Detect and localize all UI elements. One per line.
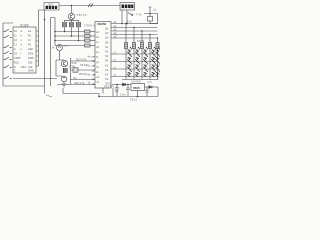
svg-text:c: c xyxy=(21,39,23,42)
transistor T1 top circle xyxy=(68,13,87,20)
top bus to crystal xyxy=(150,23,158,25)
bottom mid text rows xyxy=(69,61,115,89)
wire corner to feed line xyxy=(51,18,56,87)
mid bottom wire 1 xyxy=(70,79,95,81)
svg-text:a1: a1 xyxy=(114,20,117,24)
bottom left rail wire xyxy=(3,85,44,87)
arrow mark xyxy=(128,13,133,16)
bottom bus xyxy=(63,88,99,97)
svg-text:Q2: Q2 xyxy=(105,31,109,35)
wire to IC2 row b xyxy=(71,69,96,71)
switch S5 xyxy=(3,57,12,59)
svg-text:5c: 5c xyxy=(88,65,91,68)
svg-text:11: 11 xyxy=(14,33,17,37)
wire to IC2 row a xyxy=(71,60,96,62)
svg-text:c1: c1 xyxy=(96,40,99,44)
svg-text:f: f xyxy=(21,51,22,55)
ground G1 xyxy=(62,82,67,87)
loop rectangle wires xyxy=(56,60,64,76)
svg-text:Q3: Q3 xyxy=(105,36,109,40)
svg-text:552: 552 xyxy=(28,60,33,64)
svg-text:DM8: DM8 xyxy=(28,56,34,60)
svg-text:+5V: +5V xyxy=(147,80,152,84)
svg-text:e1: e1 xyxy=(96,50,99,54)
wire from display box down xyxy=(122,10,127,24)
svg-text:7805: 7805 xyxy=(133,86,140,90)
capacitor C3 xyxy=(115,85,119,97)
svg-text:Fc: Fc xyxy=(28,38,32,42)
squiggle label xyxy=(46,95,52,97)
switch S3 xyxy=(3,45,12,47)
T1 legs to resistors xyxy=(65,20,79,22)
svg-text:IC280: IC280 xyxy=(20,24,29,28)
svg-text:100u: 100u xyxy=(120,93,126,97)
svg-text:Fb: Fb xyxy=(28,33,32,37)
matrix bottom bus xyxy=(122,79,159,81)
svg-text:XT: XT xyxy=(153,8,157,12)
svg-text:K4: K4 xyxy=(105,77,109,81)
svg-text:Q1: Q1 xyxy=(105,27,109,31)
IC2 box xyxy=(95,22,111,89)
resistor R1 vertical hatched xyxy=(62,22,66,27)
IC2 right pins to matrix feed wires xyxy=(111,24,158,39)
svg-text:10: 10 xyxy=(92,60,95,63)
row wire 1 with resistor R4 xyxy=(55,30,95,33)
svg-text:Fd: Fd xyxy=(28,42,32,46)
svg-text:k1: k1 xyxy=(96,70,99,74)
svg-text:13: 13 xyxy=(14,42,17,46)
row wire 2 with resistor R5 xyxy=(55,35,95,38)
svg-text:9: 9 xyxy=(14,47,16,51)
switch S1 xyxy=(3,29,12,31)
svg-text:14a: 14a xyxy=(28,65,33,69)
column wires xyxy=(126,49,158,80)
svg-text:12: 12 xyxy=(14,38,17,42)
svg-text:R19 1k: R19 1k xyxy=(79,73,88,76)
IC2 left lower pin stubs xyxy=(93,57,95,85)
svg-text:S3: S3 xyxy=(105,54,109,58)
svg-text:15: 15 xyxy=(14,51,17,55)
svg-text:5.8V 0.5: 5.8V 0.5 xyxy=(77,13,88,17)
IC1 right pins stubs xyxy=(36,31,39,66)
svg-text:h1: h1 xyxy=(96,65,99,69)
svg-text:a1: a1 xyxy=(96,30,99,34)
bottom right bus xyxy=(99,87,158,97)
svg-text:VD05: VD05 xyxy=(14,56,21,60)
svg-text:6e: 6e xyxy=(88,74,91,77)
wire top bus from power box to display box xyxy=(59,5,120,7)
svg-text:8: 8 xyxy=(14,65,16,69)
matrix row wires xyxy=(111,54,159,77)
switch contact dots xyxy=(4,31,10,79)
svg-text:Q4: Q4 xyxy=(105,40,109,44)
IC1 box xyxy=(13,24,36,74)
power input box 220V xyxy=(44,3,59,11)
svg-text:n1: n1 xyxy=(96,80,99,84)
svg-text:12: 12 xyxy=(92,70,95,73)
vertical feed wire mid xyxy=(44,10,46,94)
meter circle M1 xyxy=(52,45,69,51)
switch S2 xyxy=(3,35,12,37)
wire M1 down xyxy=(59,51,61,61)
svg-text:d: d xyxy=(21,42,23,46)
svg-text:S1: S1 xyxy=(105,45,109,49)
svg-text:OSC: OSC xyxy=(105,82,111,86)
switch S7 below IC xyxy=(3,76,57,78)
IC2 inner text rows xyxy=(105,27,111,86)
svg-text:f1: f1 xyxy=(96,55,99,59)
svg-text:b: b xyxy=(21,33,23,37)
wire from 220V box bottom left xyxy=(39,10,45,66)
svg-text:S2: S2 xyxy=(105,50,109,54)
top right network xyxy=(144,7,158,24)
mid vertical wire xyxy=(70,58,72,85)
switch S4 xyxy=(3,51,12,53)
svg-text:DPa: DPa xyxy=(28,51,34,55)
IC2 left pin labels outside xyxy=(96,30,100,84)
svg-text:GND: GND xyxy=(28,69,34,73)
left rail xyxy=(3,23,13,86)
diode VD hatched xyxy=(63,68,68,73)
svg-text:10: 10 xyxy=(14,29,17,33)
svg-text:LED: LED xyxy=(28,47,33,51)
svg-text:b1: b1 xyxy=(96,35,99,39)
svg-text:S4: S4 xyxy=(105,59,109,63)
switch S6 xyxy=(3,65,12,67)
capacitor C4 xyxy=(120,85,130,97)
svg-text:d1: d1 xyxy=(96,45,99,49)
svg-text:a3: a3 xyxy=(114,27,117,31)
IC1 pin labels xyxy=(14,29,34,73)
svg-text:g1: g1 xyxy=(96,60,99,64)
capacitor C6 xyxy=(145,87,148,97)
svg-text:VD260: VD260 xyxy=(97,22,107,26)
svg-text:e: e xyxy=(21,48,23,51)
LED matrix symbols xyxy=(126,47,160,77)
svg-text:a: a xyxy=(21,30,23,33)
resistor R3 vertical hatched xyxy=(76,22,80,27)
regulator 7805 xyxy=(131,80,145,91)
diode D1 bottom xyxy=(112,83,131,86)
svg-text:K2: K2 xyxy=(105,68,109,72)
svg-text:1mA: 1mA xyxy=(64,45,69,48)
svg-text:R01: R01 xyxy=(14,60,19,64)
svg-text:4.7k: 4.7k xyxy=(136,13,142,17)
svg-text:4.7k: 4.7k xyxy=(127,20,133,24)
svg-text:3A: 3A xyxy=(52,47,55,50)
display box top right xyxy=(120,3,135,11)
svg-text:K3: K3 xyxy=(105,73,109,77)
junction dots xyxy=(44,5,151,98)
T1 top wire to bus xyxy=(71,6,73,14)
svg-text:Fa: Fa xyxy=(28,29,32,33)
svg-text:27R02.4: 27R02.4 xyxy=(84,24,95,28)
IC2 bottom stub xyxy=(102,88,104,94)
svg-text:R17 4.7k: R17 4.7k xyxy=(76,59,87,62)
transistor T3 circle xyxy=(61,76,67,82)
transistor T2 circle xyxy=(61,60,67,66)
svg-text:a2: a2 xyxy=(114,24,117,28)
svg-text:OSC: OSC xyxy=(21,65,27,69)
svg-text:111: 111 xyxy=(115,90,119,93)
column resistors 510 ohm xyxy=(124,43,159,49)
column drop wires xyxy=(126,24,158,43)
resistor R19 xyxy=(73,68,78,72)
resistor R2 vertical hatched xyxy=(69,22,73,27)
svg-text:7g: 7g xyxy=(88,82,91,85)
mid bottom wire 2 xyxy=(57,84,95,86)
svg-text:m1: m1 xyxy=(96,75,100,79)
svg-text:C8 0.1: C8 0.1 xyxy=(130,99,138,102)
wires from R1-R3 down xyxy=(65,27,79,40)
row wire 4 with resistor R7 xyxy=(55,44,95,47)
mid text labels xyxy=(76,59,89,77)
diode D2 xyxy=(145,80,159,88)
svg-text:R16: R16 xyxy=(72,61,77,65)
svg-text:2: 2 xyxy=(14,69,16,73)
feed pin labels xyxy=(114,20,117,39)
svg-text:4a: 4a xyxy=(88,56,91,59)
svg-text:CW7805: CW7805 xyxy=(131,80,142,84)
break symbol on top wire xyxy=(88,4,93,8)
svg-text:K1: K1 xyxy=(105,63,109,67)
row wire 3 with resistor R6 xyxy=(55,39,95,42)
